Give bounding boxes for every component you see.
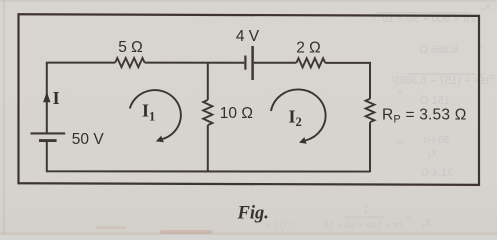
- svg-text:31.4 Ω: 31.4 Ω: [421, 167, 454, 179]
- wire: top wire from 4V battery to 2 ohm resistor: [254, 62, 297, 64]
- resistor 5 ohm: [115, 58, 144, 67]
- svg-text:6.366 Ω: 6.366 Ω: [420, 44, 459, 56]
- wire: left branch upper (top-left corner down to 50V battery): [46, 63, 48, 134]
- node: junction of 10 ohm branch on top wire: [207, 62, 209, 65]
- wire: 10 ohm branch lower (resistor to bottom wire): [207, 125, 209, 171]
- svg-text:=: =: [397, 137, 403, 149]
- resistor 10 ohm: [203, 100, 212, 125]
- svg-text:151 Ω: 151 Ω: [420, 95, 450, 107]
- wire: right branch lower (RP to bottom-right corner): [369, 122, 371, 172]
- loop current I1 arc with arrowhead: [130, 90, 181, 142]
- wire: top wire from top-left corner to 5 ohm resistor: [46, 62, 115, 64]
- svg-text:50 Hz: 50 Hz: [423, 135, 449, 146]
- wire: top wire from 2 ohm to top-right corner and down to RP: [325, 63, 370, 99]
- svg-text:=: =: [397, 87, 403, 99]
- svg-text:I: I: [53, 88, 60, 108]
- resistor RP: [366, 99, 375, 122]
- current arrow I on left branch: [43, 92, 50, 102]
- wire: 10 ohm branch upper (top node down to resistor): [207, 63, 209, 100]
- svg-text:2 Ω: 2 Ω: [296, 40, 321, 57]
- loop current I2 arc with arrowhead: [271, 89, 326, 143]
- faint red offset print at bottom (decorative): [96, 226, 212, 234]
- svg-text:=: =: [405, 213, 411, 225]
- wire: top wire from 5 ohm through node to 4V battery: [145, 62, 245, 64]
- svg-text:= Z: = Z: [479, 72, 495, 84]
- svg-text:Fig.: Fig.: [237, 204, 269, 224]
- outer figure border frame (decorative): [19, 14, 480, 185]
- svg-text:10 Ω: 10 Ω: [220, 105, 253, 122]
- svg-text:4 V: 4 V: [236, 28, 260, 45]
- resistor 2 ohm: [296, 58, 325, 67]
- page bleed-through text (back side, mirrored, decorative): [264, 1, 495, 232]
- svg-text:1: 1: [363, 205, 369, 216]
- wire: bottom wire: [47, 170, 370, 172]
- svg-text:10⁴ + (157 − 6.366)²: 10⁴ + (157 − 6.366)²: [391, 75, 490, 87]
- battery V1 50 V (long top bar): [31, 133, 66, 140]
- wire: left branch lower (battery to bottom-left corner): [46, 142, 48, 172]
- svg-text:2π × 100 × 50 × 10: 2π × 100 × 50 × 10: [323, 220, 404, 231]
- svg-text:5 Ω: 5 Ω: [118, 39, 143, 56]
- svg-text:50 V: 50 V: [72, 131, 105, 148]
- battery V2 4 V (short left bar, long right bar): [245, 46, 252, 80]
